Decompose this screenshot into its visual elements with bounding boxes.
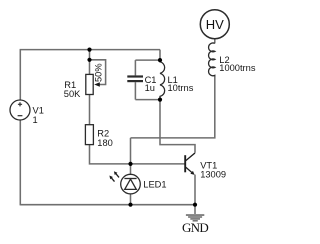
LED1 triangle (125, 179, 137, 189)
transistor VT1 (185, 153, 194, 173)
LED1 emission arrow 2 (115, 173, 119, 177)
wire LED bottom lead (130, 194, 132, 205)
voltage source V1 (10, 100, 30, 120)
wire gnd stub (194, 205, 196, 214)
junction node: top rail / pot (87, 48, 91, 52)
wire HV stub (214, 39, 216, 44)
wire tank drop from top rail (159, 50, 161, 61)
V1 minus sign (18, 115, 23, 117)
capacitor C1 plates (127, 75, 143, 77)
wire bottom rail (20, 204, 195, 206)
VT1 emitter arrowhead (190, 171, 194, 175)
junction node: wiper branch (87, 58, 91, 62)
wire left rail lower (19, 120, 21, 206)
HV circle (200, 10, 229, 39)
svg-text:13009: 13009 (200, 170, 226, 180)
junction node: base rail / LED (128, 162, 132, 166)
wire L2 return (131, 76, 215, 138)
svg-text:50%: 50% (94, 63, 104, 82)
wire pot to R2 (89, 95, 91, 125)
svg-text:GND: GND (182, 220, 208, 235)
wire tank bottom (135, 99, 160, 101)
junction node: bottom rail / LED (128, 203, 132, 207)
svg-text:1000trns: 1000trns (219, 63, 256, 73)
svg-text:10trns: 10trns (168, 83, 194, 93)
wire wiper loop (90, 60, 106, 85)
svg-text:180: 180 (97, 138, 113, 148)
svg-text:1u: 1u (145, 83, 155, 93)
wire R2 to base (90, 145, 185, 164)
wire tank left upper (134, 60, 136, 75)
inductor L2 coil (209, 43, 215, 76)
LED1 circle (121, 174, 141, 194)
wire left rail upper (19, 50, 21, 101)
resistor R1 body (potentiometer) (86, 74, 93, 94)
wire top rail (20, 49, 160, 51)
inductor L1 coil (160, 60, 165, 100)
LED1 cathode bar (124, 178, 136, 180)
wire emitter down (194, 175, 196, 205)
wire pot top lead (89, 50, 91, 75)
wire tank left lower (134, 82, 136, 99)
junction node: tank top (158, 58, 162, 62)
resistor R2 body (85, 125, 93, 145)
junction node: tank bottom (158, 98, 162, 102)
svg-text:HV: HV (206, 17, 224, 32)
svg-text:50K: 50K (64, 89, 81, 99)
LED1 emission arrow 1 (111, 177, 115, 181)
svg-text:LED1: LED1 (143, 180, 166, 190)
R1 wiper arrowhead (94, 82, 100, 86)
svg-text:1: 1 (33, 115, 38, 125)
ground symbol (186, 215, 204, 222)
wire L2 branch down to base rail (130, 138, 132, 164)
wire collector run (160, 100, 195, 153)
wire tank top (135, 59, 160, 61)
wire LED top lead (130, 164, 132, 175)
V1 plus sign (18, 102, 22, 106)
junction node: emitter / ground (193, 203, 197, 207)
